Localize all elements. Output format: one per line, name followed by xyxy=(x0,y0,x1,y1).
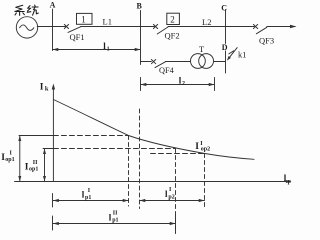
svg-text:p1: p1 xyxy=(85,195,91,201)
breaker QF3 contact x xyxy=(253,24,257,28)
svg-text:1: 1 xyxy=(107,46,110,52)
dimension Iop1-I vertical xyxy=(19,136,21,182)
svg-text:I: I xyxy=(88,188,91,194)
breaker QF2 blade xyxy=(157,27,168,34)
wire: bus B to QF4 xyxy=(141,61,152,63)
transformer T winding 1 xyxy=(191,54,206,69)
wire: QF1 to QF2 (line L1) xyxy=(81,26,155,28)
wire: transformer to bus D xyxy=(214,61,226,63)
label 系统 (system) xyxy=(15,5,38,15)
svg-text:1: 1 xyxy=(81,14,86,24)
dimension Iop1-II vertical xyxy=(44,149,46,182)
svg-text:p1: p1 xyxy=(112,218,118,224)
breaker QF1 contact x xyxy=(64,24,68,28)
svg-text:II: II xyxy=(113,211,118,217)
bus C xyxy=(225,10,227,44)
svg-text:k1: k1 xyxy=(238,50,247,60)
protection box 1 xyxy=(77,13,93,24)
svg-text:p2: p2 xyxy=(168,194,174,200)
fault marker k1 xyxy=(230,48,238,58)
svg-text:QF1: QF1 xyxy=(70,32,85,42)
svg-text:p: p xyxy=(288,179,292,185)
protection box 2 xyxy=(167,13,180,24)
bus A xyxy=(52,9,54,51)
breaker QF4 contact x xyxy=(151,60,155,64)
svg-text:k: k xyxy=(45,86,49,93)
bus D xyxy=(225,51,227,73)
svg-text:L2: L2 xyxy=(202,17,211,27)
dimension lp2-I xyxy=(140,200,205,202)
svg-text:QF2: QF2 xyxy=(165,31,180,41)
svg-text:I: I xyxy=(195,142,199,152)
short-circuit current curve Ik(l) xyxy=(53,100,254,160)
dimension lp1-II xyxy=(53,223,176,225)
generator sine symbol xyxy=(20,25,34,30)
wire: QF4 to transformer xyxy=(165,61,190,63)
svg-text:QF3: QF3 xyxy=(259,36,274,46)
svg-text:2: 2 xyxy=(182,81,185,87)
level line Iop1-I (solid extension) xyxy=(19,135,53,137)
dashed drop at lp1-I xyxy=(128,136,130,207)
dimension lp1-I xyxy=(53,200,129,202)
breaker QF2 contact x xyxy=(153,24,157,28)
dimension row 1 left tick xyxy=(52,194,54,208)
svg-text:C: C xyxy=(221,3,227,12)
level line Iop1-II (solid extension) xyxy=(43,148,53,150)
bus B xyxy=(140,11,142,65)
svg-text:op1: op1 xyxy=(29,167,38,173)
svg-text:2: 2 xyxy=(170,15,175,25)
dashed drop at bus B position xyxy=(139,109,141,209)
wire: generator to breaker QF1 contact xyxy=(37,26,66,28)
level line Iop1-II (dashed) xyxy=(53,148,175,150)
svg-text:L1: L1 xyxy=(103,17,112,27)
svg-text:B: B xyxy=(137,2,143,11)
svg-text:D: D xyxy=(222,43,228,52)
svg-text:I: I xyxy=(169,187,172,193)
svg-text:op2: op2 xyxy=(201,146,210,152)
breaker QF1 blade xyxy=(68,27,81,33)
dashed drop at lp1-II xyxy=(175,149,177,234)
svg-text:I: I xyxy=(40,83,44,93)
dimension l1 (A to B) xyxy=(53,49,141,51)
x axis lp xyxy=(15,181,290,183)
dimension row 2 left tick xyxy=(52,216,54,230)
breaker QF4 blade xyxy=(155,62,165,68)
wire: QF2 to QF3 (line L2) xyxy=(168,26,254,28)
breaker QF3 blade xyxy=(256,27,267,34)
svg-text:QF4: QF4 xyxy=(159,66,175,75)
svg-text:A: A xyxy=(50,1,56,10)
level line Iop2-I dashed xyxy=(151,153,205,155)
wire: QF3 outgoing with arrow xyxy=(267,26,295,28)
svg-text:II: II xyxy=(33,160,38,166)
level line Iop1-I (dashed) xyxy=(53,135,128,137)
dashed drop at lp2-I xyxy=(204,154,206,210)
y axis Ik xyxy=(52,86,54,182)
transformer T winding 2 xyxy=(199,54,214,69)
generator G (system source circle) xyxy=(16,17,37,38)
svg-text:T: T xyxy=(199,44,205,54)
dimension l2 (B to transformer) xyxy=(141,78,215,91)
svg-text:I: I xyxy=(10,151,13,157)
svg-text:op1: op1 xyxy=(5,157,14,163)
dimension row 2 right tick xyxy=(175,215,177,234)
